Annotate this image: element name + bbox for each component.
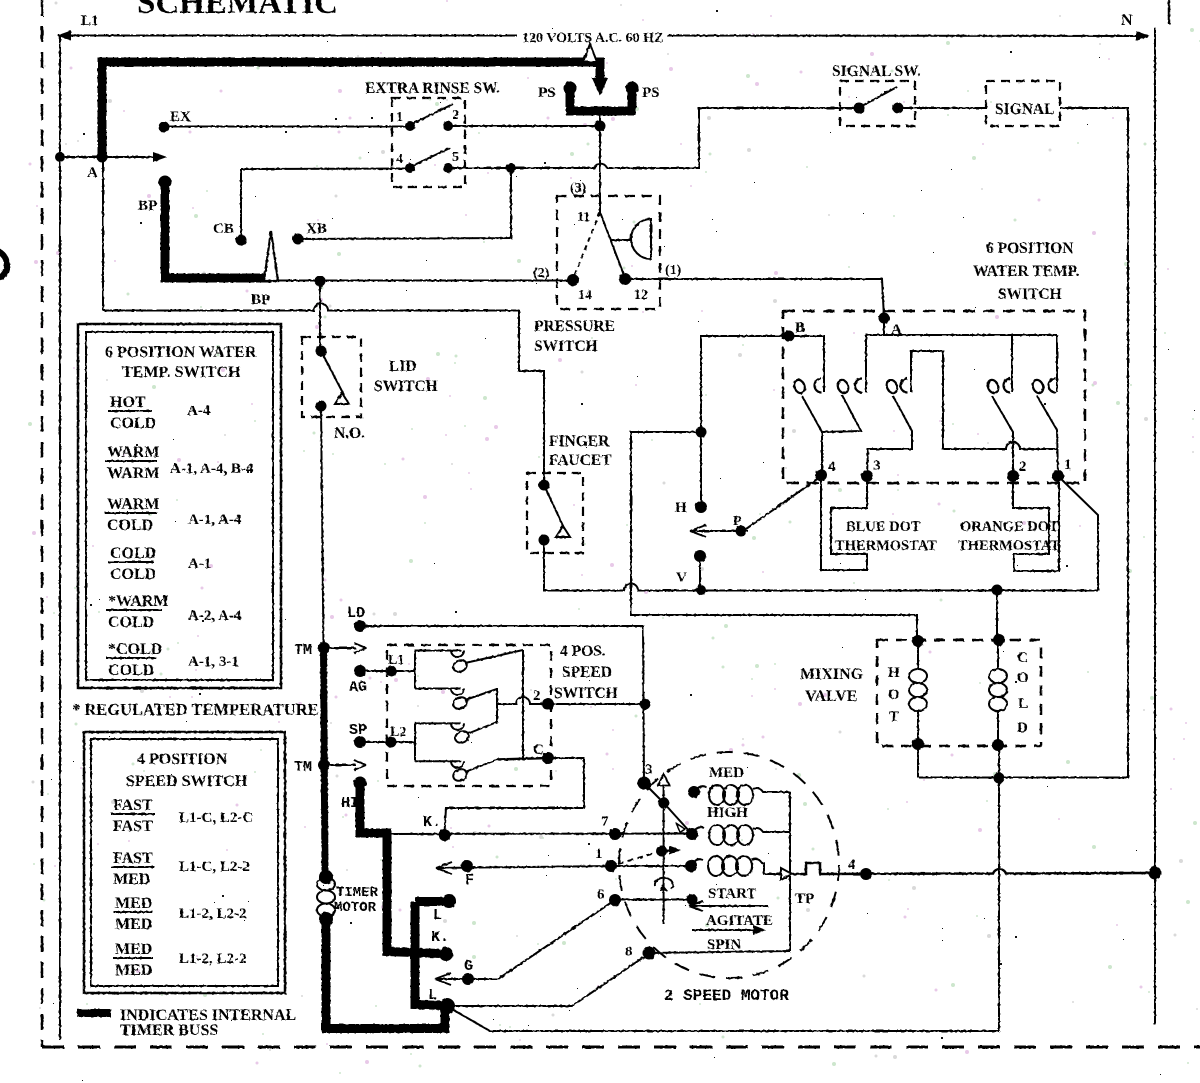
rotation symbol bbox=[655, 878, 673, 889]
wire G to motor 6 bbox=[498, 900, 615, 979]
svg-text:L: L bbox=[433, 907, 442, 924]
svg-text:FINGER: FINGER bbox=[549, 433, 610, 450]
svg-text:2 SPEED MOTOR: 2 SPEED MOTOR bbox=[664, 987, 789, 1005]
svg-text:TM: TM bbox=[294, 759, 312, 776]
svg-text:3: 3 bbox=[873, 458, 881, 474]
temp switch B bar bbox=[789, 336, 824, 392]
terminal PS left bbox=[564, 82, 577, 95]
dashed link 1 to shaft bbox=[618, 852, 658, 864]
svg-text:V: V bbox=[676, 570, 687, 586]
wire lid feed bbox=[103, 304, 544, 486]
svg-text:FAST: FAST bbox=[113, 850, 153, 867]
node N rail bbox=[1149, 867, 1162, 880]
svg-text:TIMER: TIMER bbox=[336, 885, 379, 901]
wire LD to motor 3 bbox=[360, 626, 644, 783]
wire 12 to A bbox=[625, 279, 884, 318]
svg-text:PRESSURE: PRESSURE bbox=[534, 318, 615, 335]
L2 prongs bbox=[391, 723, 461, 761]
svg-text:2: 2 bbox=[1019, 459, 1027, 475]
wire faucet to temp 1 bbox=[544, 540, 1098, 591]
terminal AG bbox=[354, 665, 366, 677]
wire C detour to K bbox=[445, 758, 585, 833]
node 8 bbox=[643, 947, 656, 960]
terminal CB bbox=[236, 235, 247, 246]
svg-text:L1: L1 bbox=[388, 653, 404, 668]
svg-text:LID: LID bbox=[389, 358, 417, 375]
signal bbox=[986, 81, 1060, 126]
svg-text:6: 6 bbox=[597, 887, 605, 903]
svg-text:XB: XB bbox=[306, 221, 327, 237]
svg-text:T: T bbox=[889, 709, 899, 725]
node 14 bbox=[567, 274, 579, 286]
svg-text:SIGNAL SW.: SIGNAL SW. bbox=[832, 63, 921, 80]
svg-text:AG: AG bbox=[349, 679, 367, 696]
svg-text:TEMP. SWITCH: TEMP. SWITCH bbox=[122, 364, 241, 381]
node 2-LD junction bbox=[640, 699, 651, 710]
terminal F bbox=[436, 862, 452, 874]
thermal protector TP bbox=[781, 868, 792, 880]
terminal LD bbox=[354, 620, 366, 632]
svg-text:3: 3 bbox=[645, 762, 653, 778]
svg-text:120 VOLTS A.C. 60 HZ: 120 VOLTS A.C. 60 HZ bbox=[522, 31, 663, 46]
svg-text:4: 4 bbox=[396, 152, 403, 167]
svg-text:C: C bbox=[1017, 650, 1028, 666]
svg-text:START: START bbox=[708, 886, 756, 902]
wire buss to pressure 11 bbox=[599, 113, 601, 213]
svg-text:12: 12 bbox=[634, 288, 648, 303]
svg-text:WARM: WARM bbox=[107, 496, 159, 513]
svg-text:7: 7 bbox=[601, 814, 609, 830]
table 6 position water temp switch bbox=[78, 324, 281, 688]
svg-text:14: 14 bbox=[578, 288, 592, 303]
svg-text:D: D bbox=[1017, 720, 1028, 736]
svg-text:N.O.: N.O. bbox=[334, 425, 365, 442]
node 1 bbox=[1052, 470, 1064, 482]
svg-text:TP: TP bbox=[795, 891, 814, 907]
node A bbox=[97, 152, 108, 163]
wire A arrow bbox=[60, 156, 158, 158]
wire EX to extra rinse 1 bbox=[164, 126, 406, 128]
legend timer buss bbox=[77, 1009, 111, 1017]
wire cold bottom to bottom rail bbox=[998, 745, 1000, 1031]
hot solenoid bbox=[912, 635, 924, 647]
svg-text:COLD: COLD bbox=[110, 415, 156, 432]
temp switch blade 4-pivot bbox=[802, 395, 861, 474]
svg-text:L: L bbox=[428, 987, 437, 1004]
wire N rail bbox=[1154, 28, 1156, 1025]
node 3 (motor) bbox=[638, 777, 651, 790]
svg-text:K.: K. bbox=[423, 814, 441, 831]
wire lid switch to TM buss bbox=[321, 406, 324, 648]
cold solenoid bbox=[993, 634, 1005, 646]
node 4 bbox=[815, 469, 827, 481]
svg-text:SWITCH: SWITCH bbox=[374, 378, 438, 395]
svg-text:VALVE: VALVE bbox=[805, 688, 857, 705]
svg-text:TIMER BUSS: TIMER BUSS bbox=[120, 1022, 218, 1039]
svg-text:SPEED SWITCH: SPEED SWITCH bbox=[126, 773, 248, 790]
svg-text:THERMOSTAT: THERMOSTAT bbox=[835, 538, 937, 554]
timer buss BP bbox=[159, 176, 172, 189]
svg-text:SWITCH: SWITCH bbox=[998, 286, 1062, 303]
timer buss from L1 bbox=[102, 62, 600, 157]
svg-text:LD: LD bbox=[347, 605, 365, 622]
pressure switch blades bbox=[573, 212, 600, 279]
svg-text:6 POSITION WATER: 6 POSITION WATER bbox=[105, 344, 257, 361]
svg-text:BLUE DOT: BLUE DOT bbox=[846, 519, 921, 535]
terminal EX bbox=[159, 122, 170, 133]
svg-text:1: 1 bbox=[595, 846, 603, 862]
node B bbox=[784, 331, 795, 342]
pressure diaphragm bbox=[611, 239, 631, 241]
PS buss U bbox=[566, 88, 636, 111]
node cold tap bbox=[994, 773, 1005, 784]
svg-text:L2: L2 bbox=[390, 725, 406, 740]
svg-text:ORANGE DOT: ORANGE DOT bbox=[960, 519, 1059, 535]
svg-text:PS: PS bbox=[538, 85, 556, 101]
svg-text:4 POSITION: 4 POSITION bbox=[137, 751, 228, 768]
svg-text:11: 11 bbox=[577, 210, 590, 225]
svg-text:B: B bbox=[795, 320, 805, 336]
node 12 bbox=[619, 273, 631, 285]
node at buss foot bbox=[595, 121, 606, 132]
svg-text:MED: MED bbox=[115, 916, 152, 933]
svg-text:MED: MED bbox=[115, 962, 152, 979]
wire CB riser and row to signal bbox=[240, 169, 242, 240]
svg-text:MED: MED bbox=[113, 871, 150, 888]
svg-text:COLD: COLD bbox=[108, 662, 154, 679]
temp switch A bar bbox=[883, 318, 885, 335]
temp switch blade 1-pivot bbox=[1037, 396, 1058, 474]
wire signal sw to signal bbox=[898, 107, 986, 109]
START winding bbox=[685, 860, 697, 872]
terminal K node bbox=[439, 829, 451, 841]
svg-text:A-1, A-4: A-1, A-4 bbox=[188, 512, 242, 528]
svg-text:N: N bbox=[1121, 12, 1133, 29]
svg-text:4 POS.: 4 POS. bbox=[560, 643, 606, 660]
spin line bbox=[649, 951, 790, 953]
svg-text:EXTRA RINSE SW.: EXTRA RINSE SW. bbox=[365, 80, 500, 97]
node 6 bbox=[609, 894, 621, 906]
motor shaft bbox=[663, 784, 665, 924]
svg-text:6 POSITION: 6 POSITION bbox=[986, 240, 1073, 257]
extra rinse contacts 1-2 bbox=[405, 121, 415, 131]
terminal SP bbox=[354, 736, 366, 748]
svg-text:H: H bbox=[675, 500, 687, 516]
svg-text:MED: MED bbox=[709, 765, 744, 781]
speed switch blades bbox=[451, 658, 468, 674]
svg-text:2: 2 bbox=[452, 108, 459, 123]
wire L to motor 8 bbox=[447, 954, 649, 1007]
L1 prongs bbox=[391, 651, 461, 689]
wire cold top bbox=[996, 590, 998, 640]
svg-text:SPIN: SPIN bbox=[707, 937, 741, 953]
svg-text:COLD: COLD bbox=[108, 614, 154, 631]
wire 1 to faucet line bbox=[1058, 476, 1098, 590]
wire 2 out bbox=[497, 697, 548, 704]
svg-text:L1-C, L2-C: L1-C, L2-C bbox=[179, 810, 253, 826]
svg-text:L1-C, L2-2: L1-C, L2-2 bbox=[179, 859, 250, 875]
temp switch blade 2-pivot bbox=[992, 396, 1013, 474]
terminal XB bbox=[293, 234, 304, 245]
svg-text:COLD: COLD bbox=[110, 566, 156, 583]
node 1 (motor) bbox=[605, 860, 617, 872]
wire H stub bbox=[700, 432, 702, 505]
svg-text:MOTOR: MOTOR bbox=[334, 900, 377, 916]
svg-text:PS: PS bbox=[642, 85, 660, 101]
terminal L1 (speed) bbox=[386, 666, 397, 677]
timer motor bbox=[319, 870, 333, 884]
terminal L2 (speed) bbox=[386, 737, 397, 748]
svg-text:P: P bbox=[733, 514, 742, 529]
wire C out bbox=[496, 758, 548, 760]
svg-text:1: 1 bbox=[396, 110, 403, 125]
wire L to bottom rail bbox=[450, 1008, 999, 1031]
terminal PS right bbox=[626, 82, 639, 95]
svg-text:4: 4 bbox=[828, 459, 836, 475]
lid switch bbox=[302, 337, 361, 417]
wire 2 to buss node bbox=[448, 125, 600, 127]
svg-text:SCHEMATIC: SCHEMATIC bbox=[137, 0, 338, 21]
terminal TM upper bbox=[318, 642, 330, 654]
svg-text:WARM: WARM bbox=[107, 465, 159, 482]
node A (temp switch) bbox=[879, 313, 890, 324]
svg-text:SIGNAL: SIGNAL bbox=[995, 101, 1054, 118]
svg-text:A: A bbox=[87, 165, 98, 181]
node 4 (motor) bbox=[860, 868, 872, 880]
svg-text:BP: BP bbox=[138, 198, 157, 214]
terminal L upper buss bbox=[415, 902, 443, 1006]
terminal TM lower bbox=[318, 759, 330, 771]
table 4 position speed switch bbox=[84, 732, 285, 993]
wire 6 to start contact bbox=[615, 899, 692, 901]
svg-text:C: C bbox=[533, 742, 544, 758]
svg-text:COLD: COLD bbox=[107, 517, 153, 534]
motor right bus bbox=[789, 792, 791, 951]
svg-text:HOT: HOT bbox=[110, 394, 146, 411]
wire BP to pressure switch 14 bbox=[276, 280, 570, 282]
svg-text:FAUCET: FAUCET bbox=[549, 452, 612, 469]
2 speed motor circle bbox=[619, 752, 839, 978]
terminal V bbox=[694, 550, 706, 562]
extra rinse contacts 4-5 bbox=[405, 163, 415, 173]
blue dot thermostat bbox=[821, 475, 867, 570]
svg-text:L1-2, L2-2: L1-2, L2-2 bbox=[179, 951, 247, 967]
wire L1 to N 120 VOLTS A.C. 60 HZ bbox=[58, 35, 517, 37]
svg-text:4: 4 bbox=[848, 857, 856, 873]
node 7 bbox=[609, 828, 621, 840]
svg-text:BP: BP bbox=[251, 292, 270, 308]
svg-text:WARM: WARM bbox=[107, 444, 159, 461]
svg-text:SPEED: SPEED bbox=[562, 664, 612, 681]
wire signal to valve rail bbox=[919, 108, 1128, 778]
svg-text:H: H bbox=[888, 665, 900, 681]
svg-text:A-1: A-1 bbox=[188, 556, 211, 572]
svg-text:G: G bbox=[464, 958, 473, 975]
svg-text:SP: SP bbox=[349, 722, 367, 739]
svg-text:L1: L1 bbox=[81, 13, 99, 29]
wire hot bottom bbox=[917, 744, 919, 778]
svg-text:1: 1 bbox=[1064, 457, 1072, 473]
svg-text:EX: EX bbox=[170, 109, 191, 125]
svg-text:THERMOSTAT: THERMOSTAT bbox=[958, 538, 1060, 554]
svg-text:A-4: A-4 bbox=[187, 403, 211, 419]
temp switch blade 3-pivot bbox=[867, 396, 912, 475]
blade common to C bbox=[522, 650, 524, 758]
svg-text:TM: TM bbox=[294, 642, 312, 659]
node 3 bbox=[861, 470, 873, 482]
svg-text:MED: MED bbox=[115, 941, 152, 958]
node L lower bbox=[439, 998, 455, 1014]
svg-text:*WARM: *WARM bbox=[108, 593, 168, 610]
timer buss bottom bbox=[326, 919, 445, 1029]
svg-text:(2): (2) bbox=[533, 266, 550, 281]
wire XB to riser bbox=[298, 168, 511, 239]
temp switch center U bbox=[911, 351, 1057, 449]
timer buss main bbox=[324, 648, 326, 874]
svg-text:HIGH: HIGH bbox=[707, 805, 748, 821]
wire left rail L1 bbox=[59, 35, 61, 1040]
arrow into node 1 bbox=[611, 865, 691, 867]
wire valve feed bbox=[631, 432, 917, 640]
svg-text:O: O bbox=[888, 687, 900, 703]
wire K to motor 7 and HIGH bbox=[389, 833, 692, 836]
svg-text:L1-2, L2-2: L1-2, L2-2 bbox=[179, 906, 247, 922]
wire B to H riser bbox=[701, 336, 789, 432]
svg-text:COLD: COLD bbox=[110, 545, 156, 562]
terminal G bbox=[435, 973, 451, 985]
node lid tap bbox=[315, 276, 326, 287]
temp switch stationary hooks bbox=[815, 379, 822, 393]
svg-text:A-1, 3-1: A-1, 3-1 bbox=[188, 654, 239, 670]
svg-text:FAST: FAST bbox=[113, 818, 153, 835]
svg-text:MED: MED bbox=[115, 895, 152, 912]
terminal P bbox=[690, 525, 706, 537]
svg-text:SWITCH: SWITCH bbox=[554, 685, 618, 702]
terminal HI buss bbox=[354, 777, 367, 790]
wire lid riser bbox=[319, 281, 321, 350]
svg-text:CB: CB bbox=[213, 221, 234, 237]
orange dot thermostat bbox=[1013, 476, 1059, 571]
svg-text:O: O bbox=[1017, 670, 1029, 686]
svg-text:MIXING: MIXING bbox=[800, 666, 864, 683]
svg-text:(3): (3) bbox=[570, 181, 587, 196]
svg-text:*COLD: *COLD bbox=[108, 641, 162, 658]
pressure switch bbox=[557, 196, 660, 309]
wire TP step to 4 bbox=[792, 863, 1155, 874]
svg-text:FAST: FAST bbox=[113, 797, 153, 814]
svg-text:K.: K. bbox=[431, 929, 449, 946]
wire shaft to HIGH with arrow bbox=[664, 803, 690, 832]
svg-text:A-2, A-4: A-2, A-4 bbox=[188, 608, 242, 624]
svg-text:WATER TEMP.: WATER TEMP. bbox=[973, 263, 1080, 280]
svg-text:* REGULATED TEMPERATURE: * REGULATED TEMPERATURE bbox=[72, 700, 319, 719]
svg-text:8: 8 bbox=[625, 944, 633, 960]
svg-text:(1): (1) bbox=[665, 263, 682, 278]
svg-text:AGITATE: AGITATE bbox=[706, 913, 773, 929]
svg-text:5: 5 bbox=[452, 150, 459, 165]
svg-text:L: L bbox=[1018, 696, 1028, 712]
up arrow at buss end bbox=[583, 44, 597, 62]
svg-text:SWITCH: SWITCH bbox=[534, 338, 598, 355]
svg-text:F: F bbox=[465, 872, 474, 889]
svg-text:A-1, A-4, B-4: A-1, A-4, B-4 bbox=[170, 461, 254, 477]
svg-text:2: 2 bbox=[533, 688, 541, 704]
wire A riser to lid feed bbox=[102, 157, 104, 311]
node 2 bbox=[1007, 470, 1019, 482]
